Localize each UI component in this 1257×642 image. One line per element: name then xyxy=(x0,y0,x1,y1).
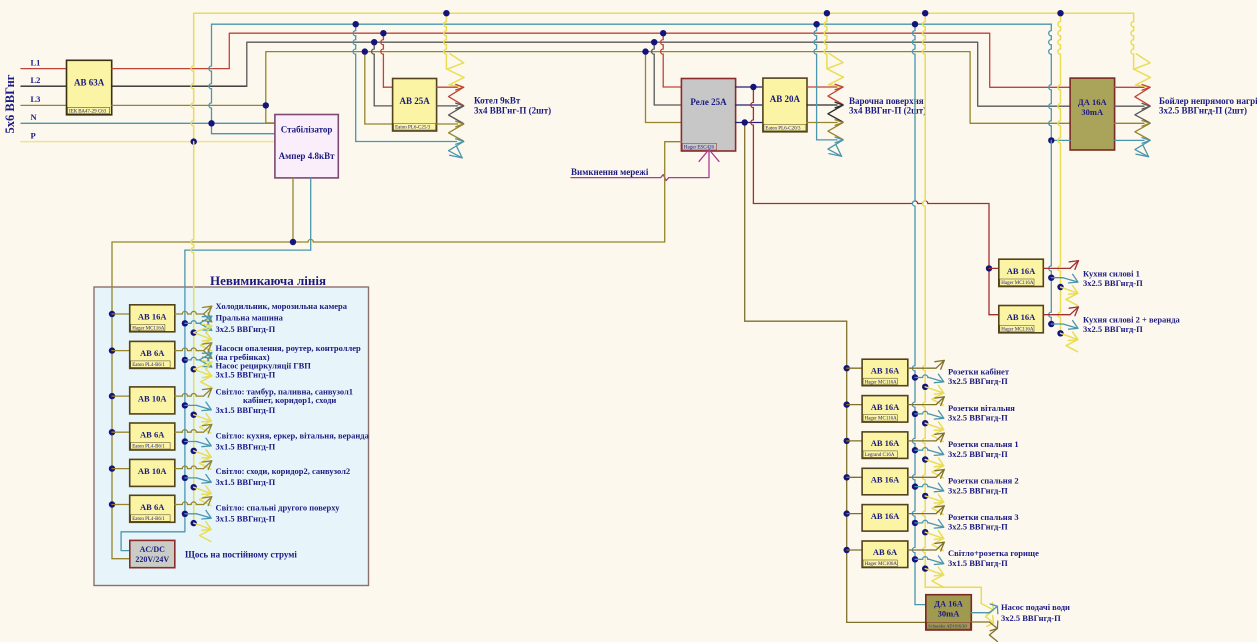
svg-text:Hager MC106A: Hager MC106A xyxy=(865,562,898,567)
wire L2 input xyxy=(21,75,67,86)
label boiler xyxy=(1159,96,1257,116)
junction rozetki feed row3 xyxy=(844,438,850,444)
wire rozetki PE xyxy=(923,13,994,626)
wire rele to AB20 L3 xyxy=(736,122,763,124)
wire nonswitch row6 N arrow xyxy=(182,510,212,519)
svg-text:Eaton PL4-B6/1: Eaton PL4-B6/1 xyxy=(132,363,165,368)
junction rozetki PE top xyxy=(922,10,928,16)
breaker АВ6А nonswitch row2 xyxy=(130,341,175,368)
varochna cable arrows level 2 xyxy=(828,102,843,122)
wire kuhnya PE xyxy=(1058,13,1061,333)
svg-text:Варочна поверхня: Варочна поверхня xyxy=(849,96,924,106)
svg-text:Розетки спальня 3: Розетки спальня 3 xyxy=(948,512,1019,522)
wire kitchen feed xyxy=(751,87,989,315)
wire stabilizer N out xyxy=(121,178,311,551)
wire stabilizer L out xyxy=(292,178,294,242)
svg-text:ДА 16А: ДА 16А xyxy=(1078,97,1108,107)
svg-text:Розетки спальня 1: Розетки спальня 1 xyxy=(948,439,1019,449)
svg-text:Невимикаюча лінія: Невимикаюча лінія xyxy=(210,273,326,288)
varochna cable arrows level 4 xyxy=(828,137,843,156)
svg-text:АВ 10А: АВ 10А xyxy=(138,393,167,403)
svg-text:3х2.5 ВВГнгд-П: 3х2.5 ВВГнгд-П xyxy=(948,449,1008,459)
junction N node xyxy=(208,120,214,126)
svg-text:АВ 25А: АВ 25А xyxy=(399,96,430,106)
wire nonswitch row2 PE arrow xyxy=(191,361,212,388)
junction varochna PE xyxy=(824,10,830,16)
svg-text:3х4 ВВГнг-П (2шт): 3х4 ВВГнг-П (2шт) xyxy=(474,106,551,116)
svg-text:3х2.5 ВВГнгд-П: 3х2.5 ВВГнгд-П xyxy=(1083,324,1143,334)
wire rele L2 drop xyxy=(652,42,682,105)
svg-text:АВ 16А: АВ 16А xyxy=(1007,266,1036,276)
svg-text:АВ 6А: АВ 6А xyxy=(140,430,165,440)
wire sockets feed xyxy=(745,123,926,623)
junction rozetki feed row2 xyxy=(844,401,850,407)
junction stabilizer L out xyxy=(290,239,296,245)
wire rozetki row5 out xyxy=(908,506,945,515)
wire rozetki row6 PE arrow xyxy=(922,565,944,587)
svg-text:АВ 16А: АВ 16А xyxy=(871,365,900,375)
feeder label 5x6 ВВГнг xyxy=(3,74,17,133)
svg-text:Ампер 4.8кВт: Ампер 4.8кВт xyxy=(279,151,336,161)
svg-text:AC/DC: AC/DC xyxy=(140,545,166,554)
wire L2 bus xyxy=(112,42,1070,106)
kotel cable arrows level 2 xyxy=(449,103,464,123)
wire L1 input xyxy=(21,57,67,68)
label acdc load xyxy=(185,550,297,560)
svg-text:Eaton PL4-B6/1: Eaton PL4-B6/1 xyxy=(132,445,165,450)
wire rozetki row6 N arrow xyxy=(912,556,944,565)
label nonswitch row3 xyxy=(216,386,353,415)
svg-text:кабінет, коридор1, сходи: кабінет, коридор1, сходи xyxy=(243,395,336,405)
junction nonswitch feed row1 xyxy=(109,311,115,317)
svg-text:ДА 16А: ДА 16А xyxy=(934,598,964,608)
converter ACDC xyxy=(130,540,175,567)
wire nonswitch row6 PE arrow xyxy=(191,520,212,542)
wire nonswitch L bus xyxy=(112,142,681,559)
svg-text:Eaton PL6-C25/3: Eaton PL6-C25/3 xyxy=(395,126,431,131)
svg-text:Hager MC116A: Hager MC116A xyxy=(1001,327,1034,332)
label nonswitch row1 xyxy=(216,301,348,334)
svg-text:ІЕК ВА47-29 С63: ІЕК ВА47-29 С63 xyxy=(69,109,107,114)
wire kuhnya row1 out xyxy=(1043,261,1078,270)
wire nonswitch row4 out xyxy=(175,424,212,433)
wire kotel L2 drop xyxy=(372,42,393,106)
nonswitchable panel box xyxy=(94,287,369,586)
wire kuhnya row1 PE arrow xyxy=(1057,284,1078,306)
wire kuhnya row1 N arrow xyxy=(1048,274,1078,283)
kotel cable arrows level 3 xyxy=(449,121,464,141)
wire nonswitch row5 PE arrow xyxy=(191,484,212,506)
breaker АВ6А nonswitch row4 xyxy=(130,423,175,450)
svg-text:N: N xyxy=(31,112,38,122)
wire varochna PE drop xyxy=(824,13,827,69)
junction L3 node xyxy=(263,102,269,108)
kotel PE cable arrows xyxy=(446,54,464,87)
wire varochna L1 xyxy=(807,86,837,88)
junction rele L3 xyxy=(642,48,648,54)
label nonswitch row4 xyxy=(216,431,370,452)
wire rele to AB20 L1 xyxy=(736,86,763,88)
junction rele L1 xyxy=(660,30,666,36)
wire kotel output L2 xyxy=(437,105,458,107)
wire N bus xyxy=(209,24,1051,140)
junction kotel L2 xyxy=(371,39,377,45)
wire rozetki row1 in xyxy=(847,367,862,369)
wire L1 bus xyxy=(112,33,1070,87)
label nonswitch row6 xyxy=(216,503,341,524)
junction varochna N xyxy=(813,21,819,27)
svg-text:5х6 ВВГнг: 5х6 ВВГнг xyxy=(3,74,17,133)
label nonswitchable title xyxy=(210,273,326,288)
breaker АВ16А rozetki row2 xyxy=(862,396,908,423)
wire nonswitch row3 PE arrow xyxy=(191,412,212,434)
breaker AB63A xyxy=(67,60,112,115)
wire rozetki row4 N arrow xyxy=(912,483,944,492)
svg-text:L3: L3 xyxy=(31,94,41,104)
svg-text:АВ 16А: АВ 16А xyxy=(871,438,900,448)
junction rele L2 xyxy=(651,39,657,45)
boiler cable arrows level 1 xyxy=(1135,85,1150,106)
wire rozetki N xyxy=(912,24,925,604)
svg-text:220V/24V: 220V/24V xyxy=(135,555,169,564)
breaker АВ10А nonswitch row5 xyxy=(130,459,175,486)
svg-text:3х2.5 ВВГнгд-П: 3х2.5 ВВГнгд-П xyxy=(948,485,1008,495)
rcd DA16A top xyxy=(1070,78,1115,150)
wire kuhnya row2 out xyxy=(1043,307,1078,316)
svg-text:Legrand C16A: Legrand C16A xyxy=(865,453,895,458)
wire nonswitch row3 out xyxy=(175,388,212,397)
label varochna xyxy=(849,96,926,116)
wire rozetki row4 in xyxy=(847,476,862,478)
svg-text:3х1.5 ВВГнгд-П: 3х1.5 ВВГнгд-П xyxy=(216,513,276,523)
wire rozetki row1 N arrow xyxy=(912,374,944,383)
label rozetki row4 xyxy=(948,476,1019,496)
svg-text:Світло+розетка горище: Світло+розетка горище xyxy=(948,548,1039,558)
arrow vymknennya xyxy=(699,150,719,162)
boiler PE cable arrows xyxy=(1134,54,1151,87)
wire kuhnya row2 N arrow xyxy=(1048,321,1078,330)
junction sockets feed xyxy=(742,119,748,125)
breaker AB16A kuhnya row1 xyxy=(999,259,1044,286)
junction nonswitch feed row5 xyxy=(109,465,115,471)
wire kotel L3 drop xyxy=(365,52,393,124)
kotel cable arrows level 1 xyxy=(449,84,464,105)
wire rozetki row2 in xyxy=(847,404,862,406)
breaker АВ16А nonswitch row1 xyxy=(130,305,175,332)
wire nonswitch row5 in xyxy=(112,468,130,470)
junction kotel L3 xyxy=(362,48,368,54)
wire nasos L out xyxy=(971,604,998,614)
boiler cable arrows level 4 xyxy=(1135,138,1150,157)
wire nonswitch row1 N arrow xyxy=(182,316,212,330)
svg-text:Розетки вітальня: Розетки вітальня xyxy=(948,403,1015,413)
wire N to stabilizer xyxy=(212,123,275,133)
varochna cable arrows level 1 xyxy=(828,84,843,104)
svg-text:3х2.5 ВВГнгд-П: 3х2.5 ВВГнгд-П xyxy=(948,413,1008,423)
label rozetki row1 xyxy=(948,366,1010,386)
wire P input xyxy=(21,130,275,141)
svg-text:Hager MC116A: Hager MC116A xyxy=(132,326,165,331)
svg-text:30mA: 30mA xyxy=(938,608,961,618)
svg-text:АВ 6А: АВ 6А xyxy=(140,502,165,512)
label rozetki row6 xyxy=(948,548,1039,568)
wire varochna L2 xyxy=(807,104,837,106)
wire rele L3 drop xyxy=(646,52,682,123)
wire nonswitch row3 N arrow xyxy=(182,402,212,411)
wire nonswitch row5 N arrow xyxy=(182,475,212,484)
wire vymknennya xyxy=(571,151,709,181)
junction rozetki N top xyxy=(912,21,918,27)
svg-text:3х1.5 ВВГнгд-П: 3х1.5 ВВГнгд-П xyxy=(216,441,276,451)
svg-text:Hager MC116A: Hager MC116A xyxy=(865,380,898,385)
svg-text:3х2.5 ВВГнгд-П (2шт): 3х2.5 ВВГнгд-П (2шт) xyxy=(1159,106,1247,116)
svg-text:Eaton PL6-C20/3: Eaton PL6-C20/3 xyxy=(765,126,801,131)
wire nonswitch row4 PE arrow xyxy=(191,448,212,470)
svg-text:Вимкнення мережі: Вимкнення мережі xyxy=(571,167,649,177)
wire nonswitch row5 out xyxy=(175,461,212,470)
wire nonswitch row1 in xyxy=(112,313,130,315)
varochna cable arrows level 3 xyxy=(828,120,843,140)
svg-text:АВ 10А: АВ 10А xyxy=(138,466,167,476)
junction PE node xyxy=(191,138,197,144)
junction rozetki feed row5 xyxy=(844,510,850,516)
svg-text:Eaton PL4-B6/1: Eaton PL4-B6/1 xyxy=(132,517,165,522)
wire rozetki row3 out xyxy=(908,433,945,442)
wire kotel L1 drop xyxy=(381,33,393,87)
svg-text:P: P xyxy=(31,130,36,140)
wire rozetki row4 out xyxy=(908,470,945,479)
wire varochna L3 xyxy=(807,122,837,124)
breaker АВ6А nonswitch row6 xyxy=(130,495,175,522)
breaker АВ16А rozetki row4 xyxy=(862,468,908,495)
svg-text:30mA: 30mA xyxy=(1081,107,1104,117)
boiler cable arrows level 2 xyxy=(1135,103,1150,122)
svg-text:Кухня силові 2 + веранда: Кухня силові 2 + веранда xyxy=(1083,315,1181,325)
svg-text:Hager MC116A: Hager MC116A xyxy=(865,417,898,422)
svg-text:Реле 25А: Реле 25А xyxy=(690,97,727,107)
junction boiler N xyxy=(1048,137,1054,143)
svg-text:3х2.5 ВВГнгд-П: 3х2.5 ВВГнгд-П xyxy=(1083,278,1143,288)
svg-text:Щось на постійному струмі: Щось на постійному струмі xyxy=(185,550,297,560)
svg-text:АВ 16А: АВ 16А xyxy=(1007,312,1036,322)
wire nonswitch row2 in xyxy=(112,350,130,352)
wire rozetki row6 out xyxy=(908,542,945,551)
svg-text:Пральна машина: Пральна машина xyxy=(216,313,284,323)
wire kotel N drop xyxy=(353,24,457,141)
junction nonswitch feed row6 xyxy=(109,501,115,507)
wire varochna N drop xyxy=(814,24,837,140)
svg-text:3х2.5 ВВГнгд-П: 3х2.5 ВВГнгд-П xyxy=(948,522,1008,532)
junction kotel L1 xyxy=(380,30,386,36)
wire nonswitch row2 N arrow xyxy=(182,353,212,367)
junction rozetki feed row1 xyxy=(844,365,850,371)
junction kitchen feed xyxy=(750,84,756,90)
svg-text:Розетки кабінет: Розетки кабінет xyxy=(948,366,1010,376)
svg-text:Розетки спальня 2: Розетки спальня 2 xyxy=(948,476,1019,486)
wire kuhnya row2 in xyxy=(989,314,999,316)
svg-text:Hager MC116A: Hager MC116A xyxy=(1001,281,1034,286)
wire rozetki row6 in xyxy=(847,549,862,551)
junction nonswitch feed row3 xyxy=(109,393,115,399)
svg-text:Світло: кухня, еркер, вітальня: Світло: кухня, еркер, вітальня, веранда xyxy=(216,431,370,441)
wire boiler L2 xyxy=(1115,105,1144,107)
wire boiler L3 xyxy=(1115,122,1144,124)
svg-text:Світло: сходи, коридор2, санву: Світло: сходи, коридор2, санвузол2 xyxy=(216,466,351,476)
junction rozetki feed row6 xyxy=(844,547,850,553)
svg-text:3х1.5 ВВГнгд-П: 3х1.5 ВВГнгд-П xyxy=(216,477,276,487)
wire nonswitch row1 out xyxy=(175,306,212,322)
wire nonswitch row6 out xyxy=(175,497,212,506)
junction rozetki feed row4 xyxy=(844,474,850,480)
wire rozetki row5 N arrow xyxy=(912,520,944,529)
wire rele L1 drop xyxy=(661,33,682,87)
svg-text:L1: L1 xyxy=(31,57,41,67)
svg-text:Бойлер непрямого нагріву: Бойлер непрямого нагріву xyxy=(1159,96,1257,106)
label kotel xyxy=(474,96,551,116)
breaker AB25A xyxy=(393,79,437,132)
label rozetki row2 xyxy=(948,403,1015,423)
svg-text:3х2.5 ВВГнгд-П: 3х2.5 ВВГнгд-П xyxy=(1001,613,1061,623)
svg-text:3х1.5 ВВГнгд-П: 3х1.5 ВВГнгд-П xyxy=(216,405,276,415)
label rozetki row5 xyxy=(948,512,1019,532)
wire N input xyxy=(21,112,275,123)
wire L3 bus xyxy=(112,52,1070,124)
breaker AB20A xyxy=(763,78,807,132)
svg-text:Schneider AD1016/30: Schneider AD1016/30 xyxy=(928,624,966,629)
svg-text:АВ 16А: АВ 16А xyxy=(871,475,900,485)
wire kotel PE drop xyxy=(444,13,447,69)
junction kuhnya PE top xyxy=(1057,10,1063,16)
wire nonswitch row4 N arrow xyxy=(182,438,212,447)
wire L3 to stabilizer xyxy=(266,122,275,124)
svg-text:Котел 9кВт: Котел 9кВт xyxy=(474,96,521,106)
varochna PE cable arrows xyxy=(827,54,844,87)
breaker АВ6А rozetki row6 xyxy=(862,541,908,568)
label nonswitch row5 xyxy=(216,466,351,487)
svg-text:L2: L2 xyxy=(31,75,41,85)
wire PE bus xyxy=(191,13,1134,141)
wire kotel output L3 xyxy=(437,123,458,125)
breaker АВ16А rozetki row5 xyxy=(862,505,908,531)
wire kuhnya row1 in xyxy=(989,267,999,269)
wire rozetki row2 N arrow xyxy=(912,411,944,420)
wire rozetki row4 PE arrow xyxy=(922,493,944,515)
wire kuhnya row2 PE arrow xyxy=(1057,330,1078,352)
wire kotel output L1 xyxy=(437,86,458,88)
svg-text:АВ 6А: АВ 6А xyxy=(140,348,165,358)
junction nonswitch feed row4 xyxy=(109,429,115,435)
wire rozetki row5 PE arrow xyxy=(922,529,944,551)
svg-text:АВ 6А: АВ 6А xyxy=(873,547,898,557)
wire nonswitch PE vert xyxy=(191,142,194,523)
label nonswitch row2 xyxy=(216,343,362,379)
contactor Rele 25A xyxy=(681,79,735,152)
wire rozetki row2 out xyxy=(908,397,945,406)
wire boiler L1 xyxy=(1115,86,1144,88)
breaker АВ16А rozetki row1 xyxy=(862,359,908,386)
breaker АВ16А rozetki row3 xyxy=(862,432,908,459)
label nasos xyxy=(1001,602,1070,623)
wire rele to AB20 L2 xyxy=(736,104,763,106)
breaker АВ10А nonswitch row3 xyxy=(130,387,175,414)
wire nonswitch row3 in xyxy=(112,395,130,397)
rcd DA16A bottom xyxy=(926,595,972,630)
svg-text:3х2.5 ВВГнгд-П: 3х2.5 ВВГнгд-П xyxy=(948,376,1008,386)
wire L3 input xyxy=(21,94,67,105)
svg-text:АВ 20А: АВ 20А xyxy=(770,94,801,104)
junction nonswitch feed row2 xyxy=(109,347,115,353)
wire rozetki row1 out xyxy=(908,360,945,369)
svg-text:3х1.5 ВВГнгд-П: 3х1.5 ВВГнгд-П xyxy=(948,558,1008,568)
junction kotel PE xyxy=(443,10,449,16)
svg-text:АВ 16А: АВ 16А xyxy=(138,311,167,321)
svg-text:3х1.5 ВВГнгд-П: 3х1.5 ВВГнгд-П xyxy=(216,369,276,379)
breaker AB16A kuhnya row2 xyxy=(999,306,1044,333)
svg-text:АВ 16А: АВ 16А xyxy=(871,402,900,412)
wire nonswitch row6 in xyxy=(112,504,130,506)
svg-text:АВ 16А: АВ 16А xyxy=(871,511,900,521)
junction kotel N xyxy=(353,21,359,27)
svg-text:АВ 63А: АВ 63А xyxy=(74,78,105,88)
wire rozetki row2 PE arrow xyxy=(922,420,944,442)
junction kuhnya feed row1 xyxy=(986,265,992,271)
svg-text:Холодильник, морозильна камера: Холодильник, морозильна камера xyxy=(216,301,348,311)
wire rozetki row3 PE arrow xyxy=(922,456,944,478)
svg-text:Стабілізатор: Стабілізатор xyxy=(281,124,333,134)
wire kuhnya N xyxy=(1049,140,1052,324)
stabilizer box xyxy=(275,115,338,178)
label rozetki row3 xyxy=(948,439,1019,459)
wire nonswitch row1 PE arrow xyxy=(191,324,212,351)
wire nonswitch row4 in xyxy=(112,431,130,433)
wire boiler N xyxy=(1051,139,1144,141)
kotel cable arrows level 4 xyxy=(449,139,464,158)
wire rozetki row3 in xyxy=(847,440,862,442)
label kuhnya row1 xyxy=(1083,268,1143,288)
wire rozetki row5 in xyxy=(847,513,862,515)
wire nonswitch row2 out xyxy=(175,343,212,359)
svg-text:Насос подачі води: Насос подачі води xyxy=(1001,602,1070,612)
svg-text:Світло: спальні другого поверх: Світло: спальні другого поверху xyxy=(216,503,341,513)
boiler cable arrows level 3 xyxy=(1135,121,1150,140)
label vymknennya xyxy=(571,167,649,177)
svg-text:3х2.5 ВВГнгд-П: 3х2.5 ВВГнгд-П xyxy=(216,324,276,334)
label kuhnya row2 xyxy=(1083,315,1181,335)
wire rozetki row1 PE arrow xyxy=(922,384,944,406)
wire nasos N out xyxy=(971,621,998,642)
svg-text:Кухня силові 1: Кухня силові 1 xyxy=(1083,268,1140,278)
wire rozetki row3 N arrow xyxy=(912,447,944,456)
